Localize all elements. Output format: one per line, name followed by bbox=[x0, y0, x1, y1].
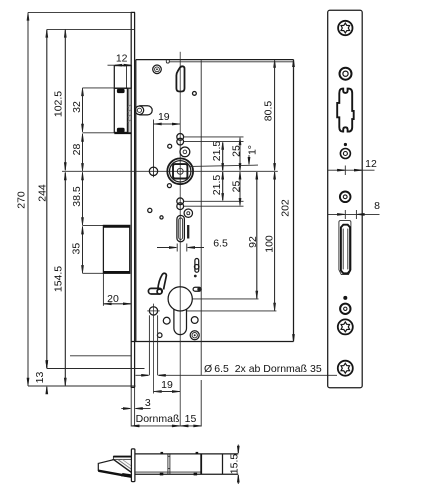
case right edge bbox=[222, 454, 224, 474]
1 degree leader arrow bbox=[248, 155, 250, 164]
follower adjust slot outer bbox=[177, 215, 185, 241]
svg-text:35: 35 bbox=[71, 243, 83, 255]
ext line deadbolt bottom bbox=[83, 272, 104, 274]
svg-text:28: 28 bbox=[71, 144, 83, 156]
deadbolt in slot thick outline bbox=[341, 225, 350, 274]
dim 12 right view bbox=[328, 169, 375, 171]
dim line 100 bbox=[274, 172, 276, 310]
ref line 244 bottom / screw height bbox=[47, 368, 145, 370]
ext line 32 top bbox=[83, 87, 115, 89]
dim line 35 bbox=[82, 226, 84, 272]
hook lever finger bbox=[158, 273, 167, 289]
hole right of cylinder bottom bbox=[191, 317, 198, 324]
svg-text:3: 3 bbox=[145, 397, 151, 409]
screw SE of follower bbox=[184, 209, 192, 217]
small circle lower left 2 bbox=[160, 216, 163, 219]
latch bevel face triangle bbox=[113, 459, 132, 473]
top ref line to faceplate top bbox=[28, 11, 131, 13]
latch bevel top bar bbox=[113, 456, 132, 459]
dim line 25 bottom bbox=[239, 172, 241, 205]
case inner bottom line bbox=[135, 471, 201, 473]
dim line 244 bbox=[46, 30, 48, 368]
small circle NW of follower bbox=[168, 144, 172, 148]
follower square hub bbox=[173, 164, 187, 178]
ref line mystery above bottom bbox=[70, 355, 131, 357]
svg-text:12: 12 bbox=[365, 158, 377, 170]
hook lever pivot circle bbox=[157, 289, 162, 294]
deadbolt thrown box bbox=[103, 225, 129, 273]
svg-text:154.5: 154.5 bbox=[53, 266, 65, 292]
small circle SW of follower bbox=[167, 184, 171, 188]
svg-text:21.5: 21.5 bbox=[211, 141, 223, 162]
ext line 21.5 top bbox=[184, 141, 244, 143]
deadbolt slot thin outline bbox=[339, 221, 351, 275]
svg-text:8: 8 bbox=[374, 200, 380, 212]
auxiliary latch box bbox=[114, 66, 131, 89]
case bottom edge bbox=[135, 473, 238, 475]
black mark bottom 2 bbox=[194, 473, 198, 476]
dim 15.5 arrows bbox=[237, 445, 239, 454]
svg-text:Dornmaß: Dornmaß bbox=[136, 413, 180, 425]
hole pair below follower (21.5 / 25) bbox=[177, 198, 184, 205]
ext line 21.5 bottom bbox=[184, 200, 244, 202]
ext line 25 top bbox=[184, 136, 244, 138]
latch top rubber insert (black) bbox=[117, 89, 125, 93]
profile cylinder lower part bbox=[174, 309, 187, 334]
lower torx screw 1 bbox=[338, 319, 353, 334]
follower inner circle bbox=[170, 161, 191, 182]
dim line 270 bbox=[27, 13, 29, 386]
svg-text:102.5: 102.5 bbox=[53, 91, 65, 117]
lock case left edge bbox=[135, 60, 137, 342]
small dot below capsule bbox=[194, 275, 197, 278]
faceplate back extension line to Dornmass dim bbox=[134, 387, 136, 426]
dim 8 right view bbox=[327, 213, 379, 215]
svg-text:38.5: 38.5 bbox=[71, 186, 83, 207]
black mark top 1 bbox=[161, 452, 164, 454]
profile cylinder hole circle bbox=[168, 287, 192, 311]
latch bottom rubber insert (black) bbox=[117, 128, 125, 133]
divider pair bbox=[167, 455, 169, 475]
dim 12 line with arrows bbox=[108, 64, 115, 66]
dim line 154.5 bbox=[64, 172, 66, 385]
ext line 25 bottom bbox=[184, 205, 244, 207]
svg-text:6.5: 6.5 bbox=[213, 238, 228, 250]
ext line lower hole center bbox=[186, 310, 276, 312]
follower outer circle bbox=[167, 158, 193, 184]
ref line top screw height bbox=[47, 28, 135, 30]
latch guide hatching bbox=[128, 104, 131, 122]
dim 6.5 ticks bbox=[176, 244, 178, 252]
latch thick bottom edge bbox=[114, 132, 131, 134]
svg-text:20: 20 bbox=[107, 293, 119, 305]
hole center ext line down bbox=[153, 318, 155, 393]
latch nose thick bottom edge bbox=[98, 471, 132, 477]
top screw in case bbox=[153, 65, 162, 74]
deadbolt thick bottom edge bbox=[103, 271, 129, 273]
Ø6.5 leader line with right arrow bbox=[158, 374, 337, 376]
svg-text:244: 244 bbox=[36, 184, 48, 202]
faceplate front view outline bbox=[328, 10, 363, 387]
deadbolt inner lines bbox=[342, 229, 344, 270]
top torx screw bbox=[338, 21, 352, 35]
horizontal centerline (follower axis) bbox=[62, 170, 278, 172]
1 degree tilted reference line bbox=[191, 165, 259, 166]
auxiliary latch inner line bbox=[126, 66, 128, 89]
faceplate (Stulp) edge view front line bbox=[130, 12, 132, 387]
ext line 15 right bbox=[200, 342, 202, 375]
screw NE of follower bbox=[180, 147, 190, 157]
dim line 25 top bbox=[239, 138, 241, 171]
case top edge bbox=[135, 453, 238, 455]
svg-text:100: 100 bbox=[264, 235, 276, 253]
roller pin circle outer bbox=[135, 106, 144, 115]
latch bolt inner vertical line bbox=[128, 88, 130, 132]
svg-text:15: 15 bbox=[185, 413, 197, 425]
lower torx screw 2 bbox=[338, 361, 353, 376]
notch in case top edge bbox=[166, 60, 169, 64]
lock case bottom edge bbox=[131, 341, 293, 343]
small dot above ring bbox=[344, 143, 347, 146]
dim 3 right arrow bbox=[135, 408, 150, 410]
hole pair above follower (21.5 / 25) bbox=[177, 134, 184, 141]
dim 6.5 arrows bbox=[157, 247, 176, 249]
small circle near case bottom bbox=[157, 333, 162, 338]
faceplate edge view back line bbox=[134, 12, 136, 387]
latch keeper slot bbox=[176, 66, 184, 91]
Ø6.5 leader left arrow bbox=[136, 374, 149, 376]
vertical centerline through lock bbox=[179, 60, 181, 427]
small dot below slot bbox=[343, 296, 347, 300]
hole tangent ext line left bbox=[148, 315, 150, 375]
dim line 102.5 bbox=[64, 30, 66, 170]
horizontal pill with dot bbox=[193, 287, 201, 291]
black mark bottom 1 bbox=[160, 473, 164, 476]
lock case top edge bbox=[136, 59, 294, 61]
ref line faceplate bottom bbox=[28, 385, 136, 387]
latch nose wedge bbox=[98, 460, 132, 477]
svg-text:13: 13 bbox=[34, 372, 46, 384]
dim line 80.5 bbox=[274, 60, 276, 170]
faceplate bottom end tick bbox=[131, 386, 135, 388]
ring hole below dot bbox=[340, 149, 350, 159]
small hole right of latch keeper bbox=[193, 92, 197, 96]
latch cutout bbox=[337, 89, 354, 132]
dim line 28 bbox=[82, 134, 84, 171]
black mark top 2 bbox=[196, 452, 199, 454]
svg-text:21.5: 21.5 bbox=[211, 175, 223, 196]
faceplate front extension line to Dornmass dim bbox=[130, 387, 132, 426]
dim line 21.5 bottom bbox=[222, 172, 224, 200]
dim 20 line bbox=[104, 303, 131, 305]
svg-text:80.5: 80.5 bbox=[263, 101, 275, 122]
svg-text:15.5: 15.5 bbox=[228, 454, 240, 475]
svg-text:12: 12 bbox=[116, 53, 128, 65]
hook lever foot capsule bbox=[148, 288, 162, 294]
roller pin circle inner bbox=[137, 108, 141, 112]
faceplate top end tick bbox=[131, 11, 135, 13]
fixing hole Ø6.5 on centerline bbox=[149, 167, 157, 175]
ext line deadbolt top bbox=[83, 224, 104, 226]
dim 19 bottom line bbox=[154, 391, 180, 393]
ext line cylinder center bbox=[193, 298, 259, 300]
vertical centerline above case bbox=[179, 52, 181, 60]
lock case top edge inner line bbox=[169, 61, 293, 63]
svg-text:25: 25 bbox=[231, 145, 243, 157]
ext line 32 bottom / 28 top bbox=[83, 132, 115, 134]
dim 3 left arrow bbox=[121, 408, 130, 410]
middle ring hole bbox=[340, 192, 351, 203]
svg-text:1°: 1° bbox=[247, 145, 259, 155]
svg-text:202: 202 bbox=[280, 199, 292, 217]
divider single bbox=[200, 454, 202, 474]
svg-text:32: 32 bbox=[71, 101, 83, 113]
202 dim top arrow bbox=[293, 60, 295, 70]
dim 19 top line bbox=[154, 123, 180, 125]
dark bar right of slot bbox=[187, 225, 189, 239]
follower adjust slot inner bbox=[179, 218, 183, 239]
dim line 92 bbox=[256, 172, 258, 298]
cross line in lower hole bbox=[147, 310, 160, 312]
dim line 21.5 top bbox=[222, 142, 224, 170]
svg-text:92: 92 bbox=[247, 236, 259, 248]
hole left of cylinder bottom bbox=[163, 317, 170, 324]
bottom fixing screw bbox=[190, 331, 199, 340]
Dornmass arrows bbox=[132, 425, 140, 427]
dim 19 top: extension line at hole bbox=[153, 120, 155, 178]
roller pin body bbox=[139, 106, 152, 115]
dim line 38.5 bbox=[82, 172, 84, 225]
latch black corner bbox=[121, 473, 132, 478]
svg-text:19: 19 bbox=[161, 379, 173, 391]
dim 20 ext line bbox=[102, 273, 104, 306]
lock case right edge (also 202 dimension line) bbox=[293, 60, 295, 342]
upper ring hole bbox=[340, 68, 352, 80]
dim line 32 bbox=[82, 89, 84, 132]
faceplate bar section bbox=[131, 449, 135, 482]
small capsule with circle bbox=[195, 259, 199, 273]
lower fixing hole Ø6.5 bbox=[149, 307, 157, 315]
svg-text:25: 25 bbox=[231, 181, 243, 193]
latch bolt front box bbox=[114, 88, 127, 132]
svg-text:270: 270 bbox=[16, 191, 28, 209]
hole tangent ext line right bbox=[157, 315, 159, 375]
small circle lower left 1 bbox=[148, 208, 152, 212]
svg-text:Ø 6.5 2x ab Dornmaß 35: Ø 6.5 2x ab Dornmaß 35 bbox=[204, 363, 322, 375]
deadbolt thick top edge bbox=[103, 226, 129, 228]
follower center circle bbox=[177, 168, 183, 174]
latch bevel hatch lines bbox=[118, 460, 132, 470]
ring hole below slot bbox=[340, 304, 350, 314]
dim 13 arrows outside bbox=[46, 361, 48, 368]
svg-text:19: 19 bbox=[158, 111, 170, 123]
Dornmass dim line bbox=[131, 425, 201, 427]
hidden edge line 15mm behind axis bbox=[200, 60, 202, 341]
